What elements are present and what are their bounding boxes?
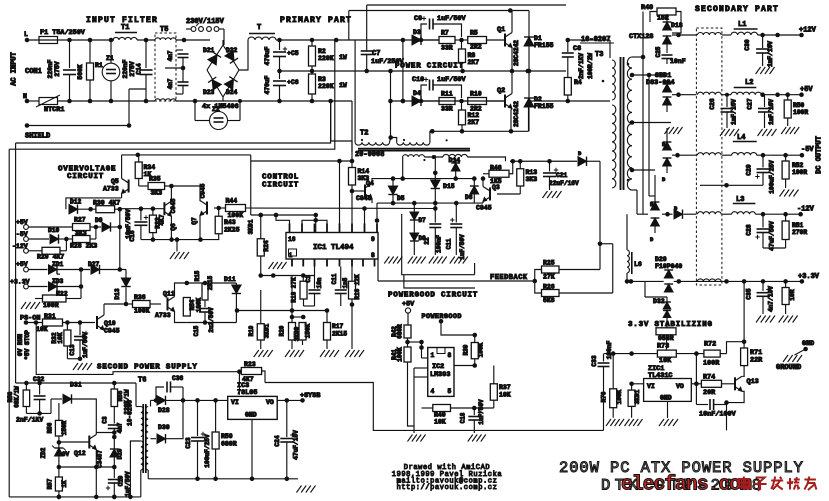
svg-text:D: D: [662, 176, 666, 183]
inductor L6: [625, 197, 664, 284]
svg-text:10K: 10K: [57, 332, 64, 343]
diode D10: [48, 227, 73, 244]
T5 bottom winding: [155, 99, 176, 101]
svg-text:GROUND: GROUND: [776, 364, 801, 372]
wire overvoltage ground bus: [141, 237, 219, 242]
transistor Q5 A733: [103, 155, 129, 198]
transistor Q10 C945: [80, 304, 120, 345]
transistor Q13: [724, 376, 759, 405]
shield wire: [25, 89, 146, 128]
svg-text:47uF/50V: 47uF/50V: [769, 221, 776, 251]
svg-text:C29: C29: [746, 164, 753, 175]
diode D aux: [578, 150, 600, 166]
control box wires: [251, 159, 355, 233]
svg-text:10K: 10K: [434, 419, 446, 426]
resistor R54 100K: [183, 283, 202, 323]
capacitor C26 1mF/16V: [709, 95, 738, 128]
svg-text:NTCR1: NTCR1: [44, 106, 64, 114]
resistor R17 2K15: [324, 311, 348, 350]
IC1 bottom pins: [292, 259, 375, 267]
svg-text:-5V: -5V: [801, 146, 814, 154]
svg-text:ZD3: ZD3: [52, 278, 64, 285]
svg-text:R43: R43: [224, 219, 236, 226]
resistor R72 100R: [703, 341, 727, 368]
svg-text:10-0205: 10-0205: [127, 400, 134, 426]
resistor R4 100R/2W: [564, 53, 594, 101]
svg-text:4x 1N5406: 4x 1N5406: [202, 103, 239, 111]
svg-text:10nF: 10nF: [670, 58, 686, 65]
svg-text:R57: R57: [47, 478, 54, 489]
ground IC2: [408, 435, 426, 442]
watermark chinese zi: [754, 478, 767, 491]
wire -12V rail: [755, 212, 800, 217]
varistor Z2: [195, 101, 240, 130]
svg-text:10R: 10R: [789, 289, 796, 300]
svg-text:D11: D11: [224, 276, 236, 283]
svg-text:T6: T6: [138, 377, 146, 385]
label CON1: [25, 68, 42, 76]
svg-text:D: D: [650, 236, 654, 243]
wire pin1 net: [290, 276, 306, 320]
svg-text:220K: 220K: [318, 55, 334, 62]
label POWER CIRCUIT: [395, 63, 464, 71]
terminal -5V: [800, 146, 815, 158]
svg-text:D12: D12: [70, 199, 82, 206]
svg-text:470uF: 470uF: [264, 75, 271, 94]
label AC INPUT: [11, 52, 19, 86]
svg-text:R16 12K: R16 12K: [354, 274, 361, 300]
resistor R24 3K01: [248, 213, 271, 276]
wire T2 primary riser: [354, 40, 356, 142]
diode D14: [435, 157, 460, 179]
svg-text:D6: D6: [465, 194, 473, 201]
svg-text:100R: 100R: [793, 109, 808, 116]
capacitor C18 1uF/50V: [460, 399, 486, 433]
svg-text:1K5: 1K5: [490, 178, 502, 185]
svg-text:DC OUTPUT: DC OUTPUT: [816, 136, 824, 174]
terminal POWERGOOD: [422, 313, 478, 337]
svg-text:POWER CIRCUIT: POWER CIRCUIT: [395, 63, 464, 71]
svg-text:D5: D5: [397, 195, 405, 202]
svg-text:100nF: 100nF: [436, 235, 443, 253]
resistor R25 27K: [535, 260, 600, 282]
resistor R27 3K3: [73, 217, 102, 238]
svg-text:VI: VI: [231, 399, 239, 406]
wire -5V row: [16, 231, 49, 241]
svg-text:-12V: -12V: [797, 206, 815, 214]
svg-text:150K: 150K: [305, 323, 312, 338]
label CTX128: [629, 33, 653, 41]
diode D15: [431, 155, 455, 190]
title 200W PC ATX POWER SUPPLY: [559, 459, 804, 495]
svg-text:R51: R51: [792, 222, 804, 229]
capacitor C36: [156, 375, 184, 400]
svg-text:2SC4242: 2SC4242: [513, 40, 520, 66]
capacitor C13b 1uF/50V: [69, 323, 89, 359]
wire top line B: [349, 8, 529, 13]
svg-text:D32: D32: [653, 298, 665, 305]
svg-text:100R: 100R: [43, 302, 59, 309]
svg-text:5K6: 5K6: [543, 297, 555, 304]
svg-text:Q1: Q1: [497, 26, 505, 34]
T3 secondary taps: [630, 57, 671, 202]
component group box: [402, 214, 475, 275]
svg-text:C24: C24: [274, 435, 281, 446]
svg-text:T3: T3: [595, 51, 603, 59]
svg-text:+5V: +5V: [800, 86, 813, 94]
svg-text:R52: R52: [792, 162, 804, 169]
ground C11c: [450, 257, 468, 264]
capacitor C11c 1uF/50V: [445, 203, 466, 260]
svg-text:R4: R4: [574, 79, 582, 86]
wire bottom left bus: [9, 495, 141, 500]
capacitor C3 4n7: [165, 66, 189, 94]
svg-text:1uF/50V: 1uF/50V: [437, 76, 466, 84]
wire main rail: [276, 38, 439, 43]
svg-text:VI: VI: [647, 383, 655, 390]
svg-text:+5V: +5V: [16, 261, 28, 268]
svg-text:C11: C11: [331, 273, 338, 284]
svg-text:16: 16: [288, 236, 296, 243]
svg-text:C11: C11: [445, 238, 452, 249]
wire Q10 collector: [104, 303, 126, 305]
capacitor C33 100nF: [591, 340, 613, 430]
svg-text:9: 9: [371, 236, 375, 243]
winding -12V: [697, 212, 731, 214]
svg-text:+12V: +12V: [799, 27, 817, 35]
wire Q7 collector: [200, 186, 202, 200]
svg-text:470uF: 470uF: [264, 46, 271, 65]
resistor R50 100R: [784, 95, 808, 126]
diode D30: [151, 400, 184, 443]
capacitor C16 10uF/50V: [125, 209, 148, 242]
svg-text:C10: C10: [412, 76, 424, 84]
svg-text:R31: R31: [44, 313, 56, 320]
diode D8: [410, 233, 426, 255]
svg-text:F1 T5A/250V: F1 T5A/250V: [40, 29, 86, 37]
wire aux 12V rail: [510, 159, 577, 164]
ground ZIC1: [659, 419, 678, 426]
wire -5V rail: [757, 153, 800, 158]
ground C26: [720, 129, 739, 136]
capacitor C22 100nF: [423, 189, 442, 255]
resistor R57 1K: [47, 477, 69, 499]
powergood box wire: [404, 275, 475, 288]
resistor R55 220K/1W: [111, 383, 130, 424]
resistor R44 100K: [214, 198, 435, 220]
svg-text:FR155: FR155: [534, 103, 554, 110]
svg-text:1K: 1K: [61, 480, 68, 488]
resistor R1 560K: [77, 40, 103, 101]
svg-text:1uF/50V: 1uF/50V: [82, 332, 89, 358]
ground R75: [606, 419, 624, 426]
IC IC2 LM393: [428, 348, 454, 397]
svg-text:R17: R17: [332, 323, 344, 330]
svg-text:D13: D13: [114, 288, 121, 299]
resistor R42 680R: [391, 324, 424, 347]
svg-text:C945: C945: [476, 205, 492, 212]
svg-text:1mF/16V: 1mF/16V: [731, 99, 738, 125]
svg-text:C32: C32: [33, 376, 45, 383]
svg-text:ZD2: ZD2: [40, 447, 47, 458]
wire psu feed: [16, 381, 141, 407]
svg-text:2K15: 2K15: [207, 275, 214, 290]
ground IC1 left: [269, 259, 287, 269]
diode D11: [224, 276, 241, 323]
svg-text:R44: R44: [226, 198, 238, 205]
svg-text:D23: D23: [203, 89, 215, 96]
svg-text:R35: R35: [149, 176, 161, 183]
svg-text:275V: 275V: [54, 61, 61, 76]
svg-text:D: D: [578, 150, 582, 157]
svg-text:2K7: 2K7: [468, 119, 480, 126]
ground symbol: [776, 355, 802, 372]
label 3.3V STABILIZING: [628, 321, 713, 329]
wire +5V from SBD1: [667, 92, 696, 97]
svg-text:A733: A733: [155, 312, 171, 319]
svg-text:Q10: Q10: [104, 320, 116, 327]
resistor R75 100K: [601, 354, 624, 418]
svg-text:+3.3V: +3.3V: [10, 279, 30, 286]
wire +3.3V rail: [674, 279, 800, 284]
svg-text:+SYSB: +SYSB: [300, 392, 320, 400]
svg-text:D28: D28: [158, 407, 170, 414]
transistor Q1 2SC4242: [497, 11, 520, 74]
IC2 pin wires: [414, 342, 477, 433]
svg-text:100K: 100K: [134, 308, 150, 315]
resistor R60 10R: [782, 281, 796, 314]
IC1 top pins: [290, 224, 378, 233]
svg-text:R22: R22: [56, 291, 68, 298]
label INPUT FILTER: [86, 16, 158, 25]
resistor R39 100K: [463, 335, 485, 366]
wire pin net row: [377, 201, 483, 206]
resistor R31 10K: [36, 313, 95, 333]
transistor Q12 C3457: [59, 430, 117, 497]
svg-text:2SC4242: 2SC4242: [513, 101, 520, 127]
svg-text:FEEDBACK: FEEDBACK: [490, 274, 528, 282]
ground R19: [254, 350, 273, 357]
svg-text:R50: R50: [793, 102, 805, 109]
resistor R21 150K: [292, 317, 312, 345]
svg-text:8: 8: [448, 352, 452, 359]
label SECONDARY PART: [695, 5, 779, 14]
winding +12V: [697, 33, 731, 35]
svg-text:CIRCUIT: CIRCUIT: [67, 173, 104, 181]
resistor R76 3K01: [628, 384, 641, 418]
label CONTROL CIRCUIT: [262, 174, 299, 190]
svg-text:220K: 220K: [318, 83, 334, 90]
svg-text:4n7: 4n7: [167, 50, 174, 61]
svg-text:Q2: Q2: [497, 87, 505, 95]
svg-text:+C5: +C5: [287, 50, 299, 57]
dual diode D18: [663, 14, 683, 53]
diode D13: [114, 270, 131, 307]
label SECOND POWER SUPPLY: [97, 364, 198, 372]
svg-text:CON1: CON1: [25, 68, 42, 76]
T3 primary bottom wire: [609, 100, 611, 103]
svg-text:4n7: 4n7: [117, 422, 124, 433]
svg-text:R1: R1: [95, 62, 103, 69]
svg-text:D2: D2: [534, 96, 542, 103]
capacitor C10 1uF/50V: [412, 76, 466, 101]
resistor R13 3K3: [517, 161, 538, 194]
svg-text:R28 2K3: R28 2K3: [70, 243, 97, 250]
svg-text:D4: D4: [413, 90, 421, 97]
svg-text:D3: D3: [413, 29, 421, 36]
ground R52: [780, 190, 799, 197]
svg-text:R12: R12: [468, 112, 480, 119]
svg-text:FR155: FR155: [534, 42, 554, 49]
svg-text:C21: C21: [556, 172, 568, 179]
svg-text:SECONDARY PART: SECONDARY PART: [695, 5, 779, 14]
wire D12 box: [66, 198, 122, 209]
svg-text:2u2/50V: 2u2/50V: [208, 307, 215, 333]
resistor R2 220K: [309, 40, 347, 73]
svg-text:L1: L1: [738, 21, 746, 29]
svg-text:VO: VO: [266, 399, 274, 406]
svg-text:C14: C14: [136, 63, 143, 75]
wire Q11 collector net: [185, 281, 237, 286]
terminal +3.3V: [798, 273, 820, 284]
wire top line A: [367, 4, 566, 6]
svg-text:C25: C25: [655, 46, 662, 57]
transistor Q6 C945: [164, 186, 177, 240]
capacitor C5 470uF: [264, 40, 299, 71]
node C14 top: [137, 38, 155, 43]
capacitor C1 10n: [292, 267, 323, 307]
svg-text:3K01: 3K01: [634, 389, 641, 404]
svg-text:R36: R36: [134, 294, 146, 301]
svg-text:D10: D10: [48, 227, 60, 234]
capacitor C11b 1n5: [331, 267, 352, 307]
svg-text:SHIELD: SHIELD: [25, 133, 50, 141]
svg-text:5: 5: [448, 388, 452, 395]
inductor L1: [731, 21, 758, 35]
svg-text:PRIMARY PART: PRIMARY PART: [280, 16, 352, 25]
wire to selector: [176, 38, 210, 43]
svg-text:R23: R23: [244, 361, 256, 368]
ground R60: [779, 316, 798, 323]
svg-text:D1: D1: [534, 35, 542, 42]
resistor R23 4K7: [241, 361, 265, 383]
IC1 top pin wires: [276, 161, 377, 224]
ground R20: [285, 350, 304, 357]
wire inner loop to bottom: [16, 101, 331, 143]
svg-text:1uF/50V: 1uF/50V: [459, 234, 466, 260]
svg-text:elecfans.com: elecfans.com: [621, 474, 752, 497]
svg-text:560K: 560K: [77, 64, 84, 79]
svg-text:R30 4K7: R30 4K7: [93, 200, 120, 207]
resistor R34 1K: [135, 155, 155, 186]
svg-text:33R: 33R: [441, 106, 453, 113]
resistor R43 2K25: [215, 208, 240, 240]
svg-text:F10P040: F10P040: [655, 263, 682, 270]
svg-text:1W: 1W: [339, 82, 347, 89]
svg-text:100uF/25V: 100uF/25V: [769, 160, 776, 194]
wire N to bridge: [176, 99, 242, 104]
svg-text:100K: 100K: [397, 347, 404, 362]
svg-text:4n7/10V: 4n7/10V: [768, 286, 775, 312]
zener ZD2 9V: [40, 442, 70, 458]
svg-text:1: 1: [431, 352, 435, 359]
ground overvoltage: [170, 240, 189, 259]
diode D4: [407, 90, 439, 106]
terminal GND: [795, 340, 815, 355]
svg-text:R13: R13: [526, 169, 538, 176]
wire left frame outer: [8, 149, 10, 497]
svg-text:10K: 10K: [499, 392, 511, 399]
svg-text:220nF: 220nF: [122, 59, 129, 78]
wire D18 output: [667, 33, 696, 38]
svg-text:4K7: 4K7: [242, 376, 254, 383]
dashed output transformer box: [696, 28, 722, 285]
svg-text:CONTROL: CONTROL: [262, 174, 299, 182]
svg-text:R27: R27: [74, 217, 86, 224]
svg-text:VO: VO: [676, 383, 684, 390]
wire +5V rail: [725, 92, 800, 97]
resistor R51 270R: [763, 214, 807, 248]
svg-text:2K15: 2K15: [332, 331, 347, 338]
diode D-12 single: [655, 205, 696, 219]
wire T6 aux loop: [130, 441, 140, 497]
terminal -12V: [797, 206, 815, 217]
svg-text:R26: R26: [543, 284, 555, 291]
resistor R12 2K7: [459, 101, 480, 134]
resistor R32 10K: [51, 323, 71, 359]
diode D7: [410, 203, 426, 233]
wire R72 to R71: [727, 342, 745, 354]
svg-text:R14: R14: [358, 168, 370, 175]
diode D3: [407, 29, 439, 45]
svg-text:22uF/16V: 22uF/16V: [549, 180, 579, 187]
resistor R36 100K: [126, 294, 161, 315]
svg-text:C19: C19: [118, 475, 125, 486]
label OVERVOLTAGE CIRCUIT: [58, 166, 116, 182]
svg-text:100R: 100R: [703, 360, 720, 368]
capacitor C13 220nF: [47, 40, 76, 101]
label POWERGOOD CIRCUIT: [388, 292, 478, 300]
svg-text:1uF/50V: 1uF/50V: [437, 15, 466, 23]
resistor R20 3K09: [279, 317, 301, 349]
inductor L2: [731, 79, 761, 95]
resistor R71 22R: [741, 281, 764, 377]
fuse F1: [39, 29, 86, 44]
wire C13 ground: [67, 356, 82, 362]
svg-text:C13: C13: [69, 344, 76, 355]
wire Q2 drive return bus: [430, 101, 529, 134]
label SHIELD: [25, 133, 50, 141]
svg-text:R24: R24: [263, 240, 270, 251]
resistor R53 953R: [656, 328, 676, 351]
svg-text:R39: R39: [463, 344, 470, 355]
svg-text:1mF/16V: 1mF/16V: [768, 99, 775, 125]
svg-text:D83-004: D83-004: [646, 79, 675, 87]
inductor T: [239, 24, 276, 70]
svg-text:CTX128: CTX128: [629, 33, 653, 41]
svg-text:270R: 270R: [792, 229, 807, 236]
svg-text:Z2: Z2: [212, 106, 220, 113]
svg-text:100nF: 100nF: [606, 340, 613, 359]
wire lower-left vertical: [4, 265, 6, 460]
svg-text:GND: GND: [802, 340, 814, 348]
label 0V RUN 5V STOP: [17, 330, 31, 360]
svg-text:2K7: 2K7: [468, 59, 480, 66]
svg-text:SECOND POWER SUPPLY: SECOND POWER SUPPLY: [97, 364, 198, 372]
capacitor C24 47uF/16V: [274, 400, 300, 478]
svg-text:Q3: Q3: [492, 184, 500, 191]
varistor Z1: [102, 40, 120, 101]
